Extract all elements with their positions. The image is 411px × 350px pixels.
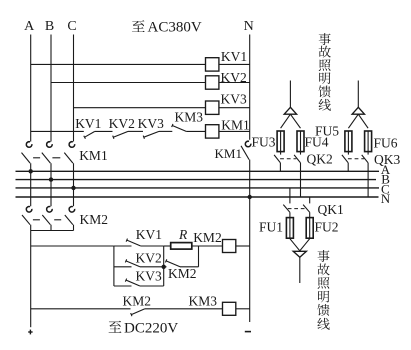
svg-text:KM1: KM1: [215, 146, 242, 161]
svg-text:R: R: [178, 227, 188, 242]
contactor KM1 pole A: [26, 142, 32, 148]
wire KM1 row seg5: [186, 130, 205, 132]
wire bus N to QK1: [309, 197, 311, 203]
wire rail to R: [164, 245, 171, 247]
bus A: [16, 170, 380, 172]
wire KM2 pole A down: [30, 225, 32, 231]
wire KV2 dc out: [140, 266, 164, 268]
svg-text:FU5: FU5: [315, 124, 339, 139]
label minus: [245, 331, 251, 333]
wire KV1 coil row: [31, 63, 206, 65]
wire KM2 pole C down: [73, 225, 75, 231]
svg-text:KV2: KV2: [221, 70, 247, 85]
wire QK3 pole2 to bus N: [367, 163, 369, 197]
wire KM1 to N: [219, 130, 250, 132]
bus N: [16, 196, 379, 198]
svg-text:QK3: QK3: [374, 152, 400, 167]
wire phase A: [30, 35, 32, 142]
fuse FU1: [286, 218, 293, 239]
svg-text:N: N: [244, 19, 254, 34]
wire KV3 dc out: [140, 285, 164, 287]
label 事故照明馈线 top: [319, 33, 331, 45]
svg-text:KV3: KV3: [136, 269, 162, 284]
fuse FU6: [365, 131, 372, 152]
wire KM1 row seg1: [31, 130, 84, 132]
contact KV3 dc: [126, 280, 140, 286]
wire KV3 dc in: [114, 285, 132, 287]
svg-text:FU2: FU2: [315, 220, 339, 235]
svg-text:KV2: KV2: [109, 116, 135, 131]
contactor coil KM3: [223, 302, 236, 315]
contact KM2 bottom: [131, 309, 145, 315]
wire QK2 pole1 to bus A: [279, 163, 281, 172]
svg-text:KM1: KM1: [79, 148, 108, 163]
wire KM1 row seg3: [128, 130, 143, 132]
svg-text:FU3: FU3: [252, 135, 276, 150]
contact KV1 dc: [127, 240, 141, 246]
contactor KM2 pole A: [26, 206, 32, 212]
svg-text:QK1: QK1: [318, 202, 344, 217]
junction C: [71, 186, 75, 190]
junction N: [248, 195, 252, 199]
wire KV1 dc out: [141, 245, 164, 247]
wire bus C down: [73, 188, 75, 206]
wire QK1 pole1 stub: [289, 212, 291, 217]
wire KM1 pole C to bus: [73, 163, 75, 188]
feeder 1 arrow: [289, 81, 291, 108]
wire FU5 stub: [347, 152, 349, 155]
fuse FU3: [277, 131, 284, 152]
switch QK3 pole 1: [342, 155, 348, 163]
svg-text:B: B: [45, 19, 54, 34]
switch QK1 pole 2: [303, 205, 310, 213]
switch QK1 pole 1: [283, 205, 290, 213]
contact KV2: [113, 131, 128, 137]
wire KV1 dc in: [114, 245, 132, 247]
svg-text:C: C: [67, 19, 76, 34]
feeder 2 arrow: [357, 81, 359, 108]
label 至 DC220V: [109, 321, 122, 333]
contactor coil KM1: [206, 125, 219, 138]
svg-text:KM3: KM3: [189, 294, 218, 309]
wire neutral N: [249, 35, 251, 140]
contactor KM2 pole B: [47, 206, 53, 212]
wire bus B down: [50, 180, 52, 207]
svg-text:KM2: KM2: [193, 230, 222, 245]
fuse FU2: [306, 218, 313, 239]
bus B: [16, 179, 377, 181]
contact KM3: [172, 126, 186, 132]
relay coil KV3: [206, 101, 219, 114]
feeder 3 arrow: [290, 239, 300, 251]
QK3 linkage: [348, 158, 364, 160]
label 至 AC380V: [132, 20, 145, 32]
label 事故照明馈线 bottom: [318, 250, 330, 262]
contact KV1: [85, 131, 95, 137]
svg-text:KM2: KM2: [80, 212, 109, 227]
wire KV2 coil row: [51, 82, 206, 84]
relay coil KV2: [206, 76, 219, 89]
svg-text:A: A: [24, 19, 35, 34]
wire bypass up: [198, 246, 200, 267]
wire R to KM2 coil: [192, 245, 223, 247]
wire KM1 row seg4: [159, 130, 172, 132]
wire KV1 to N: [219, 63, 250, 65]
fuse FU5: [345, 131, 352, 152]
wire KM2 coil to N: [236, 245, 250, 247]
svg-text:KV1: KV1: [221, 49, 247, 64]
label plus: [28, 331, 32, 333]
svg-text:KV1: KV1: [136, 227, 162, 242]
svg-text:KM1: KM1: [221, 117, 250, 132]
wire KV2 to N: [219, 82, 250, 84]
svg-text:KV3: KV3: [221, 92, 247, 107]
bus C: [16, 187, 380, 189]
wire phase B: [50, 35, 52, 142]
wire KV3 coil row: [74, 107, 206, 109]
wire phase C: [73, 35, 75, 142]
switch QK2 pole 1: [274, 155, 280, 163]
relay coil KV1: [206, 58, 219, 71]
svg-text:DC220V: DC220V: [124, 320, 178, 336]
svg-text:KM2: KM2: [168, 266, 197, 281]
wire DC feed: [31, 245, 114, 247]
svg-text:KV1: KV1: [75, 116, 101, 131]
wire KM1 pole A to bus: [30, 163, 32, 171]
wire KM2 pole B down: [50, 225, 52, 231]
svg-text:KM2: KM2: [123, 294, 152, 309]
wire KM3 coil to minus: [236, 308, 250, 310]
QK1 linkage: [288, 208, 305, 210]
contact KV2 dc: [126, 261, 140, 267]
svg-text:N: N: [381, 191, 391, 206]
junction B: [49, 177, 53, 181]
wire FU3 stub: [280, 152, 282, 155]
contactor KM1 pole B: [47, 142, 53, 148]
QK2 linkage: [280, 158, 296, 160]
fuse FU4: [297, 131, 304, 152]
wire bus C to QK1: [289, 188, 291, 204]
junction A: [29, 169, 33, 173]
wire FU6 stub: [367, 152, 369, 155]
wire bus A down: [30, 171, 32, 206]
wire KM1 pole B to bus: [50, 163, 52, 179]
switch QK2 pole 2: [294, 155, 300, 163]
wire FU4 stub: [300, 152, 302, 155]
contact KM2 bypass: [166, 261, 180, 267]
wire KM2 join bar: [31, 230, 74, 232]
wire bypass out: [180, 266, 199, 268]
svg-text:QK2: QK2: [307, 151, 333, 166]
junction KV2 node: [162, 265, 166, 269]
wire QK1 pole2 stub: [309, 212, 311, 217]
wire N to bus N: [249, 160, 251, 197]
KM2 linkage: [33, 219, 40, 221]
wire KV group right rail: [163, 246, 165, 286]
wire N minus vertical: [249, 197, 251, 322]
svg-text:KV3: KV3: [138, 116, 164, 131]
svg-text:KV2: KV2: [136, 251, 162, 266]
wire DC plus vertical: [30, 231, 32, 328]
contactor KM1 pole N: [245, 141, 251, 147]
contact KV3: [144, 131, 159, 137]
wire KV2 dc in: [114, 266, 132, 268]
wire KV group left rail: [113, 246, 115, 286]
wire QK3 pole1 to bus A: [347, 163, 349, 172]
svg-text:FU1: FU1: [259, 220, 283, 235]
wire QK2 pole2 to bus N: [300, 163, 302, 197]
wire bottom row seg2: [145, 308, 223, 310]
resistor R: [171, 243, 192, 250]
KM1 linkage: [33, 157, 40, 159]
switch QK3 pole 2: [362, 155, 368, 163]
contactor coil KM2: [223, 240, 236, 253]
wire KV3 to N: [219, 107, 250, 109]
wire bottom row seg1: [31, 308, 131, 310]
wire KM1 row seg2: [95, 130, 113, 132]
contactor KM2 pole C: [69, 206, 75, 212]
contactor KM1 pole C: [69, 142, 75, 148]
svg-text:FU6: FU6: [374, 136, 398, 151]
svg-text:KM3: KM3: [175, 110, 204, 125]
svg-text:AC380V: AC380V: [148, 20, 202, 36]
wire bypass in: [164, 266, 167, 268]
